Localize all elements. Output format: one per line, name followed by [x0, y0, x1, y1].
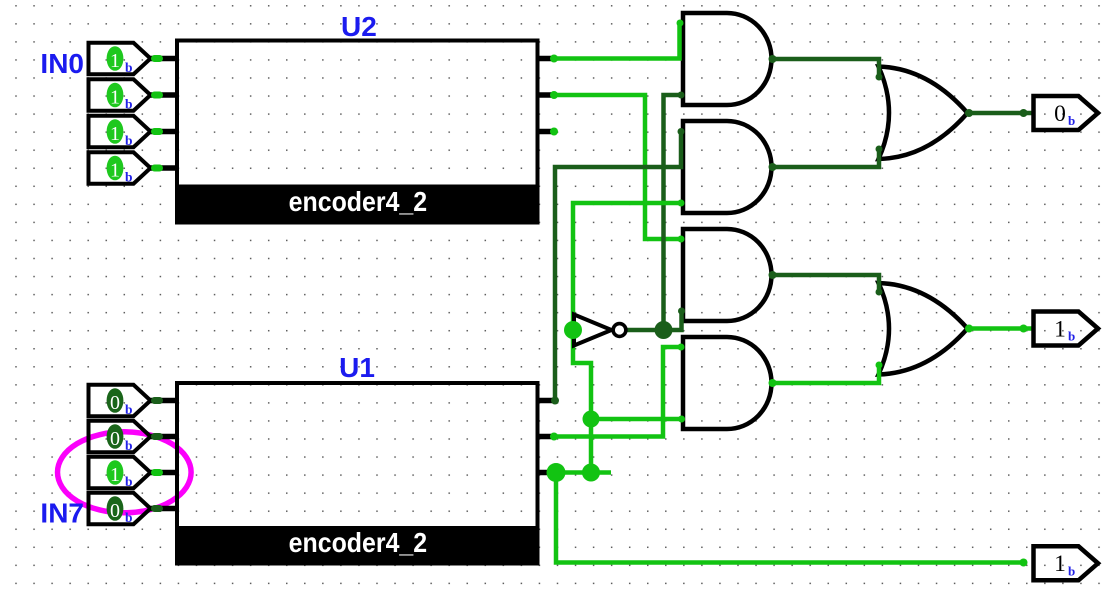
svg-text:b: b [125, 60, 133, 75]
svg-text:b: b [125, 474, 133, 489]
svg-text:b: b [125, 438, 133, 453]
svg-text:U1: U1 [339, 352, 375, 383]
svg-text:b: b [125, 133, 133, 148]
svg-text:0: 0 [110, 428, 120, 450]
svg-text:1: 1 [110, 159, 120, 181]
svg-text:IN7: IN7 [40, 498, 84, 529]
svg-text:b: b [125, 510, 133, 525]
svg-text:IN0: IN0 [40, 48, 84, 79]
svg-text:0: 0 [110, 500, 120, 522]
svg-text:1: 1 [110, 86, 120, 108]
svg-text:0: 0 [110, 392, 120, 414]
svg-text:b: b [1068, 113, 1075, 128]
svg-text:b: b [1068, 563, 1075, 578]
svg-text:b: b [125, 97, 133, 112]
svg-text:U2: U2 [341, 11, 377, 42]
svg-text:1: 1 [110, 123, 120, 145]
svg-text:encoder4_2: encoder4_2 [289, 527, 428, 558]
svg-text:encoder4_2: encoder4_2 [289, 186, 428, 217]
svg-text:1: 1 [1054, 551, 1066, 577]
svg-text:0: 0 [1054, 101, 1066, 127]
svg-text:b: b [125, 402, 133, 417]
svg-text:b: b [1068, 329, 1075, 344]
svg-text:1: 1 [110, 50, 120, 72]
svg-text:1: 1 [1054, 316, 1066, 342]
svg-text:b: b [125, 170, 133, 185]
svg-text:1: 1 [110, 464, 120, 486]
